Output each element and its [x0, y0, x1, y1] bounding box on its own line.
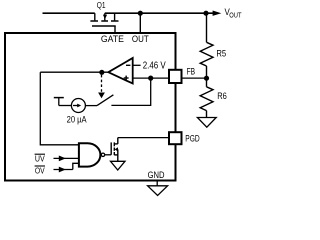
wire: rail to current source	[59, 105, 72, 107]
svg-text:20 µA: 20 µA	[67, 113, 88, 124]
svg-text:R6: R6	[217, 91, 227, 101]
wire: OV input with arrow	[54, 169, 73, 171]
transistor M1 (PGD pulldown)	[111, 138, 118, 162]
ground (M1 source)	[111, 161, 126, 170]
current source 20uA	[71, 99, 85, 113]
svg-text:OUT: OUT	[229, 12, 242, 19]
VOUT arrow	[213, 11, 222, 16]
wire: current source to switch	[85, 105, 97, 107]
svg-text:FB: FB	[187, 67, 196, 77]
wire: UV input with arrow	[54, 157, 80, 159]
internal rail T symbol	[54, 97, 64, 99]
op-amp U1 comparator	[108, 58, 132, 84]
wire: input rail (drain side)	[43, 12, 95, 14]
node: OUT junction dot	[138, 11, 143, 16]
wire: GND stub	[156, 182, 158, 186]
svg-text:UV: UV	[35, 154, 45, 163]
svg-text:GATE: GATE	[101, 34, 124, 44]
wire: NAND output to M1 gate	[105, 154, 112, 156]
wire: comparator plus input to FB	[132, 77, 168, 79]
pin box PGD	[169, 132, 182, 144]
svg-text:2.46 V: 2.46 V	[143, 60, 166, 71]
NAND gate	[79, 143, 101, 166]
wire: GATE pin wire	[114, 26, 116, 33]
minus sign	[126, 64, 130, 66]
svg-text:OV: OV	[35, 167, 45, 176]
wire: R6 to ground	[206, 111, 208, 118]
node: VOUT junction dot	[203, 11, 208, 16]
IC boundary box	[5, 33, 176, 181]
pin box FB	[169, 70, 182, 83]
resistor R5	[200, 42, 213, 66]
plus sign	[124, 77, 129, 79]
transistor Q1	[90, 13, 118, 26]
node: FB divider junction dot	[204, 76, 209, 81]
Q1 body arrow	[103, 15, 107, 20]
wire: FB box to divider	[183, 77, 207, 79]
dashed control line to switch	[101, 75, 103, 93]
wire: reference input	[132, 64, 140, 66]
NAND output bubble	[101, 153, 104, 156]
svg-text:OUT: OUT	[132, 34, 149, 44]
M1 body arrow	[115, 147, 118, 151]
wire: output rail (source side) to VOUT	[105, 12, 213, 14]
ground (R6)	[197, 118, 216, 128]
wire: M1 drain to PGD	[118, 137, 169, 139]
node: plus input junction dot	[148, 76, 153, 81]
svg-text:Q1: Q1	[97, 1, 106, 10]
resistor R6	[206, 78, 208, 87]
wire: comparator output	[40, 71, 108, 73]
wire: R5 to FB node	[206, 66, 208, 78]
svg-text:PGD: PGD	[185, 134, 200, 144]
ground (GND pin)	[148, 186, 168, 196]
wire: OUT pin wire	[139, 13, 141, 33]
wire: switch to FB node	[111, 78, 150, 105]
switch blade	[97, 95, 113, 106]
node: output junction dot	[99, 70, 104, 75]
wire: VOUT node down to R5	[206, 13, 208, 42]
wire: output down the left side to NAND	[40, 72, 79, 145]
svg-text:GND: GND	[148, 170, 165, 180]
svg-text:R5: R5	[216, 49, 226, 59]
